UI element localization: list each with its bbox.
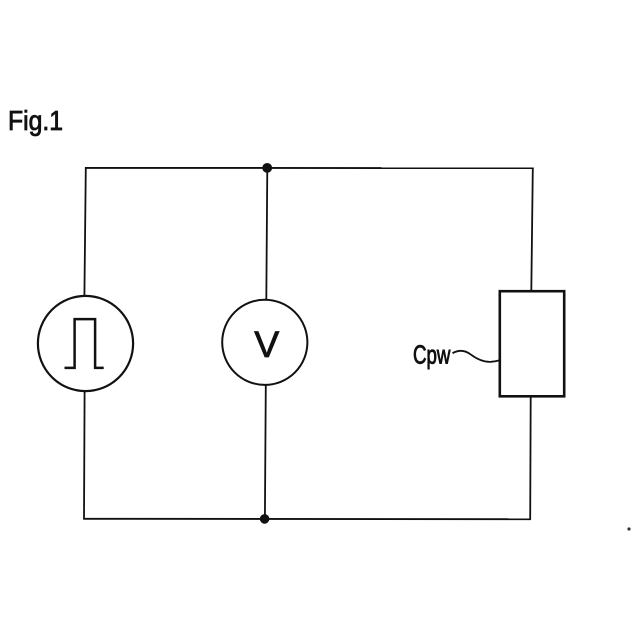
junction dot top node bbox=[262, 163, 272, 173]
pulse waveform symbol inside source bbox=[65, 319, 104, 368]
wire left vertical lower (pulse source to bottom rail) bbox=[83, 391, 86, 519]
wire right vertical upper (top rail to Cpw box) bbox=[531, 168, 533, 292]
voltmeter V circle bbox=[222, 300, 307, 385]
wire middle vertical upper (top junction to voltmeter) bbox=[266, 168, 267, 300]
voltmeter V label bbox=[254, 323, 279, 365]
wire right vertical lower (Cpw box to bottom rail) bbox=[529, 396, 532, 519]
figure title Fig.1 bbox=[8, 105, 63, 137]
junction dot bottom node bbox=[260, 514, 270, 524]
ink speck bottom right bbox=[627, 527, 630, 530]
wire left vertical upper (top rail to pulse source) bbox=[84, 168, 85, 296]
label Cpw bbox=[413, 339, 451, 369]
leader line from Cpw label to rectangle bbox=[453, 351, 500, 362]
component Cpw rectangle bbox=[500, 291, 564, 396]
svg-text:V: V bbox=[254, 323, 279, 365]
svg-text:Fig.1: Fig.1 bbox=[8, 105, 63, 137]
wire bottom horizontal bbox=[83, 518, 531, 520]
wire middle vertical lower (voltmeter to bottom junction) bbox=[264, 385, 267, 519]
svg-text:Cpw: Cpw bbox=[413, 339, 451, 369]
wire top horizontal bbox=[85, 167, 534, 169]
pulse generator source circle bbox=[38, 296, 133, 391]
